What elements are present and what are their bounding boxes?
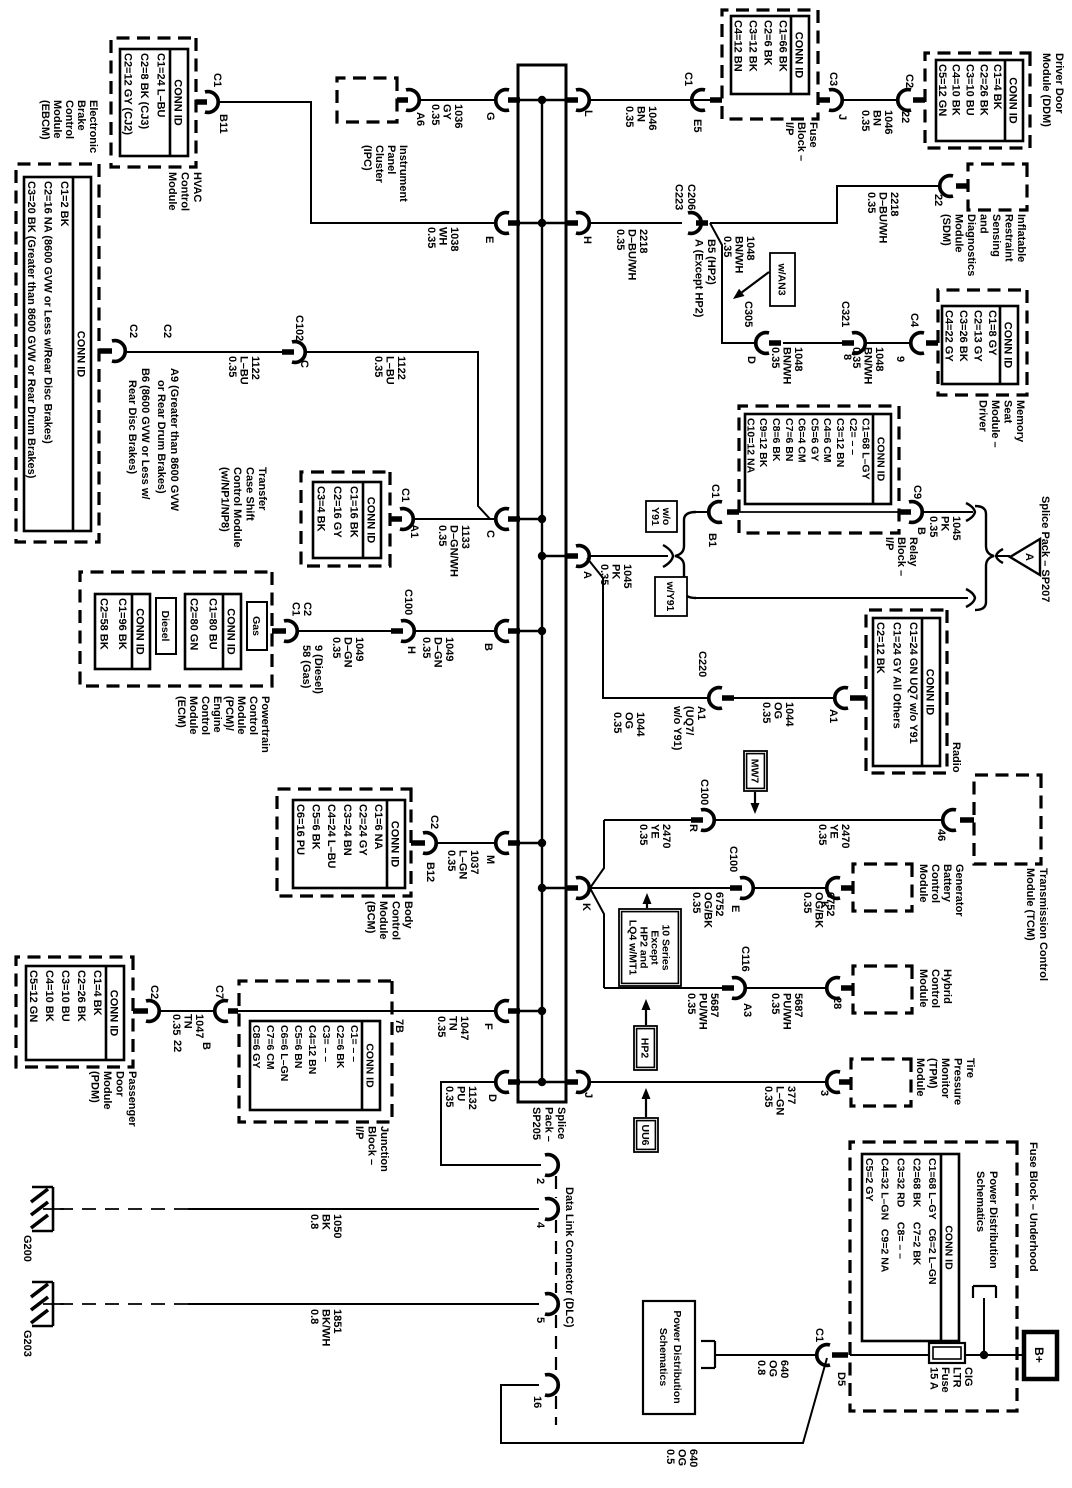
module EBCM box [16,164,99,542]
label 8 at C321 [841,354,853,360]
svg-text:SP205: SP205 [530,1107,542,1140]
svg-text:WH: WH [437,227,449,245]
svg-text:Module: Module [101,1071,113,1110]
label Tire Pressure Monitor (TPM) Module [914,1058,976,1105]
connector C100 pcm row [391,621,414,642]
svg-text:D–GN: D–GN [342,637,354,668]
svg-text:Inflatable: Inflatable [1015,214,1027,262]
svg-text:G200: G200 [21,1235,33,1262]
fuse CIG LTR 15A [929,1343,965,1363]
connector C9 relay block [900,502,922,523]
junction dot at x=631 [538,627,546,635]
label Memory Seat Module - Driver [977,400,1027,448]
svg-text:Fuse: Fuse [939,1367,951,1393]
label 4 at DLC [534,1222,546,1229]
svg-text:I/P: I/P [783,122,795,135]
svg-text:0.35: 0.35 [436,525,448,546]
arrow from MW7 [751,792,760,814]
svg-text:Pack –: Pack – [543,1107,555,1142]
svg-text:C1=4 BK: C1=4 BK [91,970,103,1016]
svg-text:C8=6 GY: C8=6 GY [250,1025,262,1068]
svg-text:CONN ID: CONN ID [943,1225,955,1270]
svg-text:C3=4 BK: C3=4 BK [314,486,326,532]
svg-text:C1=24 GN UQ7 w/o Y91: C1=24 GN UQ7 w/o Y91 [907,622,919,744]
label Fuse Block - IP [783,122,819,161]
svg-text:PK: PK [939,516,951,531]
connector C2 at PDM [133,1001,159,1022]
svg-text:16: 16 [531,1396,543,1408]
svg-text:C1: C1 [399,488,411,502]
label C116 [739,946,751,972]
svg-text:C1=68 L–GY: C1=68 L–GY [860,418,872,480]
svg-text:YE: YE [649,824,661,839]
svg-text:A9 (Greater than 8600 GVW: A9 (Greater than 8600 GVW [168,368,180,512]
svg-text:C1=66 BK: C1=66 BK [777,20,789,72]
ground G200 [31,1187,64,1231]
label CIG LTR Fuse 15 A [928,1367,975,1393]
svg-text:C4=6 CM: C4=6 CM [821,418,833,463]
svg-text:CONN ID: CONN ID [75,331,87,378]
svg-text:Monitor: Monitor [939,1058,951,1099]
svg-text:C5=2 GY: C5=2 GY [863,1158,875,1201]
label 1046 BN 0.35 (upper) [859,110,894,134]
svg-text:K: K [580,903,592,911]
label Powertrain Control Module PCM Engine Control Module ECM [175,696,271,753]
svg-text:Schematics: Schematics [974,1171,986,1232]
svg-text:0.35: 0.35 [769,993,781,1014]
svg-text:Module (TCM): Module (TCM) [1024,868,1036,941]
svg-text:1045: 1045 [621,564,633,588]
svg-text:C2=68 BK C7=2 BK: C2=68 BK C7=2 BK [910,1158,922,1266]
svg-text:Driver: Driver [977,400,989,433]
svg-text:Fuse Block – Underhood: Fuse Block – Underhood [1027,1142,1039,1272]
svg-text:Transmission Control: Transmission Control [1037,868,1049,981]
svg-text:1050: 1050 [331,1214,343,1238]
svg-text:B: B [915,527,927,535]
label Fuse Block - Underhood [1027,1142,1039,1272]
label C at C102 [298,360,310,368]
svg-text:H: H [405,646,417,654]
svg-text:2: 2 [534,1178,546,1184]
connector J (bus tap) [566,1072,589,1093]
svg-text:F: F [482,1023,494,1030]
junction dot at x=223 [538,219,546,227]
svg-text:w/o Y91): w/o Y91) [671,705,683,751]
connector at TPM [827,1072,851,1093]
label K at generator [818,901,830,909]
svg-text:0.35: 0.35 [685,993,697,1014]
label B12 [424,862,436,882]
svg-text:OG: OG [623,712,635,729]
svg-text:L: L [582,110,594,117]
connector F (bus tap) [496,1001,520,1022]
svg-text:I/P: I/P [883,537,895,550]
conn id table memory seat [942,306,1018,384]
label 1045 PK 0.35 (at A) [598,564,633,588]
svg-text:C1=6 NA: C1=6 NA [372,804,384,850]
wire 1047 inside junction block [232,1010,392,1012]
conn id table junction block [250,1021,380,1110]
label Hybrid Control Module [917,969,953,1008]
label C220 [696,651,708,677]
svg-text:15 A: 15 A [928,1367,940,1390]
svg-text:C9: C9 [911,485,923,499]
svg-text:Memory: Memory [1014,400,1026,443]
label J at bus [582,1092,594,1098]
svg-text:6752: 6752 [713,892,725,916]
svg-text:Block –: Block – [795,122,807,161]
conn id table diesel [95,594,150,669]
junction dot at x=843 [538,839,546,847]
svg-text:Control: Control [929,969,941,1008]
svg-text:PU/WH: PU/WH [697,993,709,1030]
power distribution schematics box [643,1301,695,1414]
label HVAC Control Module [166,172,203,211]
connector C4 memory seat [911,333,938,354]
svg-text:1036: 1036 [452,104,464,128]
svg-text:C8=6 BK: C8=6 BK [770,418,782,462]
conn id table BCM [293,800,405,888]
conn id table DDM [936,60,1023,141]
svg-text:C3=12 BN: C3=12 BN [834,418,846,467]
svg-text:Module –: Module – [989,400,1001,448]
wire w/Y91 direct path [695,597,968,599]
svg-text:Block –: Block – [366,1126,378,1165]
svg-text:0.35: 0.35 [330,637,342,658]
svg-text:or Rear Drum Brakes): or Rear Drum Brakes) [155,380,167,494]
junction dot at x=888 [538,884,546,892]
label 22 at SDM [932,194,944,206]
label 1048 BN/WH 0.35 (first) [721,236,756,273]
conn id table gas [185,594,241,669]
label 1047 TN 0.35 (upper) [435,1016,470,1040]
svg-text:E: E [483,236,495,243]
svg-text:Diesel: Diesel [159,611,171,642]
svg-text:C7=6 CM: C7=6 CM [264,1025,276,1070]
junction dot at x=1082 [538,1078,546,1086]
label Gas box [247,602,267,650]
svg-text:C3=12 BK: C3=12 BK [747,20,759,72]
svg-text:PU: PU [455,1086,467,1101]
svg-text:HVAC: HVAC [191,172,203,202]
connector C321 [842,333,865,354]
svg-text:640: 640 [687,1449,699,1467]
module IPC box [337,78,397,122]
wire 640 OG 0.8 to fuse block [715,1354,818,1356]
svg-text:OG: OG [676,1449,688,1466]
callout 10 series box [619,909,681,986]
svg-text:22: 22 [899,111,911,123]
svg-text:CONN ID: CONN ID [364,1043,376,1088]
wire 1036 GY from G to IPC [420,99,495,101]
svg-text:Case Shift: Case Shift [244,467,256,521]
wire 2470 YE branch to TCM [590,820,697,888]
label 2218 D-BU/WH 0.35 (lower) [614,229,649,280]
svg-text:CONN ID: CONN ID [365,497,377,544]
svg-text:C100: C100 [402,589,414,615]
svg-text:5687: 5687 [708,993,720,1017]
svg-text:R: R [687,824,699,832]
label 1046 BN 0.35 (lower) [623,106,658,130]
connector at SDM pin 22 [940,176,968,197]
svg-text:C2=80 GN: C2=80 GN [188,598,200,650]
big brace option split [675,512,696,598]
svg-text:1048: 1048 [792,347,804,371]
label C2 at DDM [903,74,915,88]
callout w/Y91 box [655,577,687,616]
svg-text:E5: E5 [691,119,703,132]
svg-text:C5=12 GN: C5=12 GN [27,970,39,1022]
label C1 transfer case [399,488,411,502]
label C7 [213,985,225,999]
label Transfer Case Shift Control Module [219,467,269,548]
big brace option merge [975,506,994,610]
svg-text:(w/NP1/NP8): (w/NP1/NP8) [219,467,231,532]
svg-text:CONN ID: CONN ID [924,669,936,716]
bus bar bracket in fuse block [973,1286,996,1298]
conn id table transfer case [313,482,381,558]
svg-text:LQ4 w/MT1: LQ4 w/MT1 [627,920,639,976]
module Fuse Block - IP box [722,10,818,119]
svg-text:C1: C1 [290,602,302,616]
svg-text:0.35: 0.35 [769,347,781,368]
svg-text:C5=6 BK: C5=6 BK [310,804,322,850]
svg-text:B6 (8600 GVW or Less w/: B6 (8600 GVW or Less w/ [139,368,151,499]
svg-text:Panel: Panel [385,145,397,174]
svg-text:D–GN/WH: D–GN/WH [448,525,460,577]
junction dot at x=1011 [538,1007,546,1015]
wire 1037 L-GN from M to BCM [435,842,495,844]
svg-text:C1=2 BK: C1=2 BK [58,181,70,227]
connector DLC pin 16 [545,1375,558,1396]
bus row crossing at x=1082 [518,1081,566,1083]
svg-text:C4=12 BN: C4=12 BN [732,20,744,72]
svg-text:CONN ID: CONN ID [225,608,237,655]
svg-text:HP2: HP2 [639,1038,651,1059]
svg-text:B12: B12 [424,862,436,882]
wire 640 OG 0.5 from pin 16 [501,1358,827,1443]
svg-text:58 (Gas): 58 (Gas) [300,645,312,689]
label C9 [911,485,923,499]
label Body Control Module (BCM) [365,901,415,940]
module generator battery control module box [853,864,912,911]
label D5 [835,1372,847,1386]
svg-text:A (Except HP2): A (Except HP2) [693,239,705,318]
label C1 at HVAC [211,73,223,87]
svg-text:Module (DDM): Module (DDM) [1040,53,1052,127]
callout w/AN3 box [770,253,795,306]
svg-text:C4: C4 [908,313,920,328]
svg-text:A1: A1 [408,524,420,538]
label 46 at TCM [935,829,947,841]
svg-text:0.35: 0.35 [372,356,384,377]
svg-text:Body: Body [402,901,414,929]
label 1045 PK 0.35 (at C9) [927,516,962,540]
label E [483,236,495,243]
svg-text:0.35: 0.35 [690,892,702,913]
svg-text:OG/BK: OG/BK [702,892,714,928]
svg-text:A6: A6 [414,112,426,126]
bracket from power distribution box [701,1341,715,1368]
svg-text:(BCM): (BCM) [365,901,377,934]
svg-text:1133: 1133 [459,525,471,549]
connector D (bus tap) [496,1072,520,1093]
label 1122 L-BU 0.35 (right) [372,356,407,385]
svg-text:C2: C2 [301,602,313,616]
svg-text:L–GN: L–GN [774,1086,786,1115]
svg-text:C2=12 BK: C2=12 BK [874,622,886,674]
svg-text:MW7: MW7 [749,759,761,784]
svg-text:(PCM)/: (PCM)/ [223,696,235,731]
connector K (bus tap) [566,878,589,899]
svg-text:C206: C206 [685,184,697,210]
connector C100 on 2470 [691,810,714,831]
svg-text:Electronic: Electronic [87,100,99,153]
wire from fuse to B+ [965,1354,1024,1356]
svg-text:Brake: Brake [75,100,87,131]
svg-text:and: and [978,214,990,234]
svg-text:377: 377 [785,1086,797,1104]
svg-text:C5=6 BN: C5=6 BN [292,1025,304,1068]
wire 6752 OG/BK from K to C100 [590,887,736,889]
connector C2 C1 at PCM [272,621,297,642]
svg-text:C321: C321 [839,301,851,327]
label C2 C1 at PCM [290,602,314,616]
connector C2 at DDM [898,90,925,111]
svg-text:0.8: 0.8 [755,1360,767,1375]
module BCM box [277,789,411,896]
svg-text:C1: C1 [813,1328,825,1342]
connector C116 [722,978,745,999]
connector C1 radio [835,688,866,709]
svg-text:CONN ID: CONN ID [172,79,184,126]
svg-text:C1: C1 [682,72,694,86]
battery B+ box [1024,1332,1057,1379]
svg-text:BN/WH: BN/WH [862,347,874,384]
svg-text:Generator: Generator [953,864,965,917]
label L [582,110,594,117]
label Transmission Control Module (TCM) [1024,868,1049,981]
svg-text:0.35: 0.35 [927,516,939,537]
svg-text:Module: Module [187,696,199,735]
label 6752 OG/BK 0.35 (upper) [801,892,836,928]
svg-text:(ECM): (ECM) [175,696,187,728]
svg-text:Control: Control [390,901,402,940]
conn id table HVAC [120,49,188,156]
connector C (bus tap) [496,509,520,530]
connector C2 at EBCM [99,341,125,362]
label 1122 L-BU 0.35 (left) [226,356,261,385]
label E5 [691,119,703,132]
svg-text:PU/WH: PU/WH [781,993,793,1030]
svg-text:1122: 1122 [395,356,407,380]
label C3 [827,72,839,86]
svg-text:C1=4 BK: C1=4 BK [991,64,1003,110]
connector M (bus tap) [496,833,520,854]
svg-text:D: D [745,356,757,364]
label 1044 OG 0.35 (second) [760,702,795,727]
svg-text:C2=12 GY (CJ2): C2=12 GY (CJ2) [121,53,133,135]
splice pack SP205 internal bus wire [541,99,543,1082]
wire 5687 PU/WH from C116 to hybrid [746,987,828,989]
svg-text:J: J [836,114,848,120]
wire to bus bar bracket [983,1298,985,1355]
svg-text:2218: 2218 [637,229,649,253]
svg-text:D–BU/WH: D–BU/WH [626,229,638,280]
svg-text:0.35: 0.35 [850,347,862,368]
label 28 at hybrid [831,997,843,1009]
svg-text:TN: TN [182,1014,194,1029]
module DDM box [925,53,1030,148]
bus row crossing at x=631 [518,630,542,632]
svg-text:9 (Diesel): 9 (Diesel) [312,645,324,694]
svg-text:1851: 1851 [331,1309,343,1333]
svg-text:(SDM): (SDM) [940,214,952,246]
connector A6 at IPC [397,90,419,111]
connector C1 transfer case [390,509,413,530]
label C102 [293,315,305,341]
svg-text:0.35: 0.35 [762,1086,774,1107]
svg-text:D5: D5 [835,1372,847,1386]
connector H (bus tap) [566,213,589,234]
label C100 on 2470 [698,779,710,805]
label 1049 D-GN 0.35 (upper) [420,637,455,668]
arrow from w/AN3 [733,272,769,299]
svg-text:C2=6 BK: C2=6 BK [762,20,774,66]
svg-text:1122: 1122 [249,356,261,380]
svg-text:640: 640 [778,1360,790,1378]
wire 377 L-GN from J to TPM [590,1081,828,1083]
svg-text:0.35: 0.35 [435,1016,447,1037]
svg-text:C7=6 BN: C7=6 BN [783,418,795,461]
label Inflatable Restraint Sensing and Diagnostics Module (SDM) [940,214,1027,276]
label C2 at BCM [428,815,440,829]
svg-text:UU6: UU6 [639,1124,651,1145]
label Splice Pack - SP207 [1039,496,1051,602]
svg-text:Module: Module [235,696,247,735]
svg-text:Passenger: Passenger [126,1071,138,1127]
svg-text:A1: A1 [695,706,707,720]
label E at C100 [729,905,741,912]
conn id table fuse block IP [731,16,809,94]
svg-text:C1=24 GY All Others: C1=24 GY All Others [891,622,903,729]
label C100 on 6752 [727,846,739,872]
svg-text:OG: OG [767,1360,779,1377]
label C1 at fuse block underhood [813,1328,825,1342]
svg-text:Data Link Connector (DLC): Data Link Connector (DLC) [563,1187,575,1328]
svg-text:Instrument: Instrument [397,145,409,202]
label 1048 BN/WH 0.35 (third) [850,347,885,384]
svg-text:0.35: 0.35 [801,892,813,913]
label K at bus [580,903,592,911]
svg-text:1049: 1049 [443,637,455,661]
label C100 pcm row [402,589,414,615]
label C2 at EBCM (x2) [127,324,173,338]
svg-text:CONN ID: CONN ID [1002,322,1014,369]
wire 1045 PK from A to option brace [590,555,668,557]
module TCM box [974,775,1041,864]
wire 1044 OG from A to C220 [587,558,710,698]
small brace before SP207 [996,549,1003,563]
label Radio [950,742,962,773]
svg-text:Radio: Radio [950,742,962,773]
module HVAC box [111,38,196,167]
label Electronic Brake Control Module (EBCM) [39,100,99,153]
svg-text:L–BU: L–BU [238,356,250,385]
label 1050 BK 0.8 [308,1214,343,1238]
label B1 relay block [706,533,718,547]
svg-text:0.35: 0.35 [721,236,733,257]
